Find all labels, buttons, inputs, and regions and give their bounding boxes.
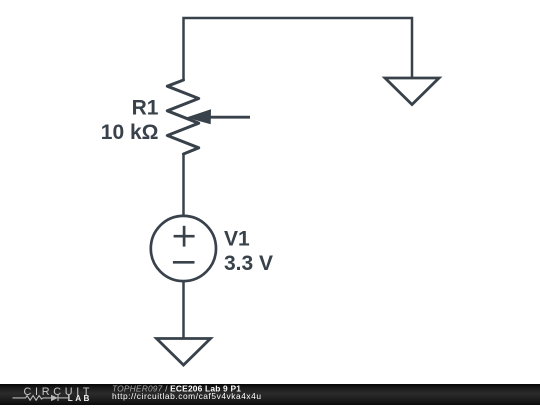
ground bottom xyxy=(157,339,211,366)
wire source to ground xyxy=(182,281,185,339)
svg-text:V1: V1 xyxy=(224,227,250,250)
CircuitLab logo xyxy=(13,386,94,403)
voltage source V1 xyxy=(151,216,216,281)
svg-text:3.3 V: 3.3 V xyxy=(224,252,273,275)
potentiometer wiper arrow xyxy=(186,109,250,124)
plus xyxy=(174,235,195,238)
svg-text:http://circuitlab.com/caf5v4vk: http://circuitlab.com/caf5v4vka4x4u xyxy=(112,391,262,401)
footer bar xyxy=(0,384,540,405)
minus xyxy=(173,261,195,264)
wire top horizontal xyxy=(184,18,413,80)
wire resistor to source xyxy=(182,154,185,216)
ground right xyxy=(385,78,439,105)
svg-text:LAB: LAB xyxy=(68,394,92,403)
svg-text:10 kΩ: 10 kΩ xyxy=(101,121,159,144)
svg-text:R1: R1 xyxy=(132,97,159,120)
resistor R1 (potentiometer) zigzag xyxy=(167,80,198,154)
